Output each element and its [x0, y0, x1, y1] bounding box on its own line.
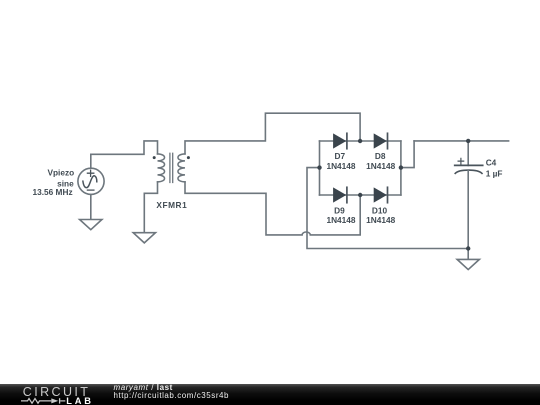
svg-text:1N4148: 1N4148 [326, 161, 355, 171]
capacitor C4 [455, 158, 483, 173]
left coil [158, 154, 165, 182]
bridge left edge wire [319, 141, 321, 195]
label D8 [366, 151, 395, 171]
node: bridge top junction [358, 139, 362, 143]
wire: capacitor top stem [467, 141, 469, 166]
label D9 [326, 205, 355, 225]
svg-text:D8: D8 [375, 151, 386, 161]
node: capacitor bottom junction [466, 246, 470, 250]
wire: secondary bottom to bridge bottom junction (with hop) [185, 182, 360, 235]
voltage source V1 (Vpiezo sine) [78, 168, 104, 194]
footer text [114, 383, 173, 392]
wire: primary bottom to ground [144, 182, 157, 233]
svg-text:C4: C4 [486, 158, 497, 168]
bridge top row wire [320, 140, 401, 142]
svg-text:D7: D7 [334, 151, 345, 161]
svg-text:13.56 MHz: 13.56 MHz [32, 187, 72, 197]
svg-text:1 µF: 1 µF [486, 169, 503, 179]
diode D7 [333, 133, 347, 148]
wire: output top rail [414, 140, 509, 142]
label XFMR1 [156, 200, 187, 210]
wire: source top to transformer primary top [91, 141, 158, 168]
core [170, 153, 173, 182]
node: bridge bottom junction [358, 193, 362, 197]
diode D9 [333, 187, 347, 202]
label C4 [486, 158, 503, 179]
bridge right edge wire [400, 141, 402, 195]
transformer XFMR1 [153, 153, 190, 182]
node: capacitor top junction [466, 139, 470, 143]
diode D10 [374, 187, 388, 202]
svg-text:1N4148: 1N4148 [326, 215, 355, 225]
wire: source bottom to ground [90, 195, 92, 220]
wire: capacitor bottom stem to rail and ground [467, 171, 469, 260]
wire: secondary top to bridge top junction [185, 113, 360, 154]
node: bridge right junction [399, 165, 403, 169]
node: bridge left junction [317, 165, 321, 169]
svg-text:D9: D9 [334, 205, 345, 215]
ground (source) [80, 220, 102, 230]
right coil [178, 154, 185, 182]
wire: bridge right tap up to top rail [401, 141, 414, 168]
CircuitLab logo [23, 385, 91, 399]
ground (transformer) [133, 233, 155, 243]
wire: bridge left tap down to bottom rail [307, 168, 468, 249]
phase dots [153, 156, 156, 159]
svg-text:Vpiezo: Vpiezo [47, 167, 74, 177]
svg-text:1N4148: 1N4148 [366, 161, 395, 171]
label V1 value [32, 167, 74, 197]
svg-text:1N4148: 1N4148 [366, 215, 395, 225]
diode D8 [374, 133, 388, 148]
ground (output) [457, 259, 479, 269]
svg-text:XFMR1: XFMR1 [156, 200, 187, 210]
svg-text:D10: D10 [372, 205, 388, 215]
label D7 [326, 151, 355, 171]
label D10 [366, 205, 395, 225]
bridge bottom row wire [320, 194, 401, 196]
